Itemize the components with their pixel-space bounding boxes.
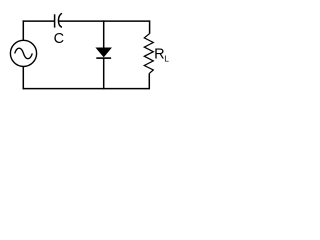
resistor RL zigzag — [144, 34, 153, 74]
svg-text:R: R — [154, 46, 164, 62]
diode D1 cathode bar — [96, 57, 111, 59]
resistor label subscript L — [164, 54, 169, 64]
wire diode branch upper — [103, 20, 105, 48]
capacitor value label C — [54, 31, 64, 47]
AC source V1 sine wave — [15, 48, 33, 59]
wire resistor branch upper — [149, 20, 151, 33]
AC source V1 circle — [10, 40, 36, 66]
wire resistor branch lower — [148, 73, 150, 89]
wire diode branch lower — [103, 59, 105, 90]
svg-text:C: C — [54, 31, 64, 47]
diode D1 anode triangle — [96, 48, 111, 57]
wire left vertical upper — [22, 20, 24, 40]
capacitor C1 left plate — [54, 14, 56, 27]
wire top-left horizontal — [23, 20, 55, 22]
wire top-right horizontal — [59, 20, 150, 22]
wire bottom horizontal — [23, 88, 150, 90]
svg-text:L: L — [164, 54, 169, 64]
resistor label R — [154, 46, 164, 62]
wire left vertical lower — [22, 66, 24, 89]
capacitor C1 curved plate — [58, 13, 61, 27]
